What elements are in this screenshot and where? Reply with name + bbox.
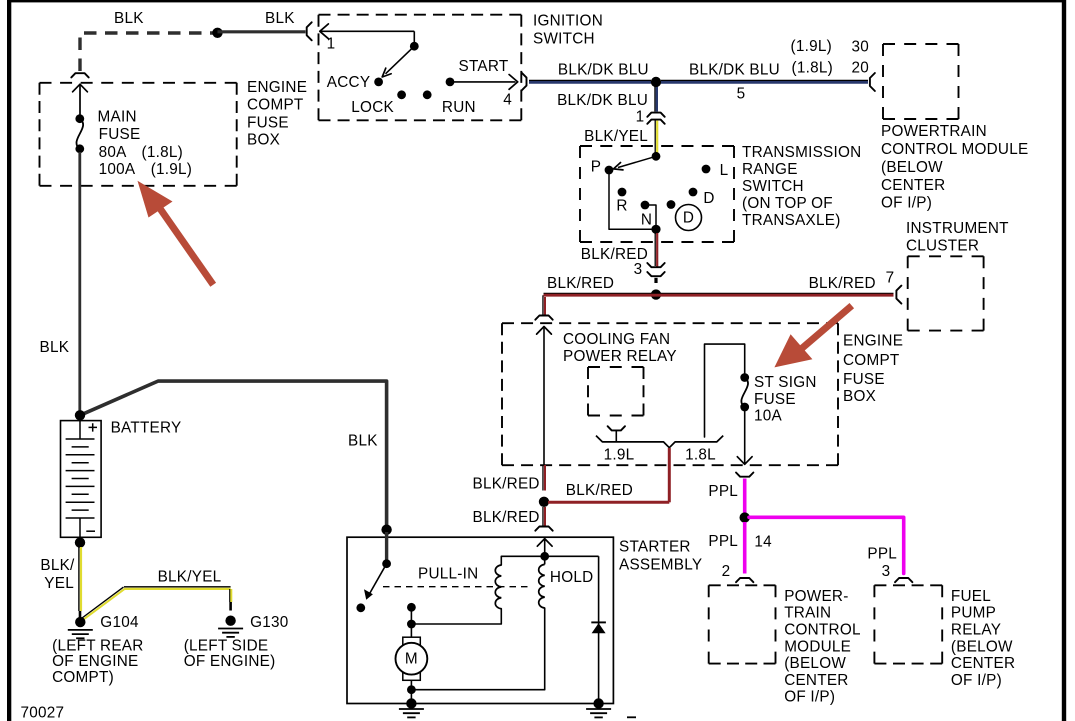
svg-text:CONTROL: CONTROL [784, 622, 861, 639]
svg-text:FUSE: FUSE [843, 371, 885, 388]
inline connector (two halves) below range switch [647, 263, 664, 283]
contact START with arrow to pin 4 [446, 58, 518, 90]
svg-text:100A: 100A [99, 161, 136, 178]
junction node pull-in return [407, 620, 416, 629]
label POWERTRAIN CONTROL MODULE (BELOW CENTER OF I/P) [881, 123, 1028, 212]
wire BLK/YEL branch to ground G130 [81, 587, 232, 621]
junction node hold/pull-in/diode [540, 552, 549, 561]
contact R [616, 188, 627, 215]
ignition switch box (dashed) [319, 15, 522, 121]
labels (1.9L) 30 / (1.8L) 20 pin variants [791, 38, 869, 77]
svg-text:CONTROL MODULE: CONTROL MODULE [881, 141, 1028, 158]
svg-text:CENTER: CENTER [951, 655, 1015, 672]
svg-text:IGNITION: IGNITION [533, 13, 603, 30]
mechanical link (dashed) [383, 586, 532, 588]
svg-text:L: L [720, 162, 729, 179]
svg-text:POWER-: POWER- [784, 588, 848, 605]
contact LOCK [351, 90, 406, 116]
battery negative node [75, 537, 85, 547]
engine selector bracket 1.9L / 1.8L [596, 436, 723, 448]
wire BLK/YEL from connector to transmission range switch [655, 120, 657, 156]
svg-text:30: 30 [851, 39, 869, 56]
svg-text:SWITCH: SWITCH [742, 178, 804, 195]
contact D [689, 188, 715, 207]
svg-text:RELAY: RELAY [951, 622, 1001, 639]
svg-text:1.8L: 1.8L [685, 447, 716, 464]
wire PPL from fuse to junction [743, 479, 747, 514]
node on ground rail below diode [593, 698, 603, 708]
wire BLK/RED from range switch down to connector [655, 233, 657, 267]
battery positive node [75, 410, 85, 420]
svg-text:BLK/RED: BLK/RED [566, 482, 633, 499]
junction node BLK/DK BLU [651, 77, 661, 87]
svg-text:BLK/RED: BLK/RED [473, 509, 540, 526]
label FUEL PUMP RELAY (BELOW CENTER OF I/P) [951, 588, 1015, 689]
svg-text:(LEFT SIDE: (LEFT SIDE [184, 638, 269, 655]
svg-text:FUEL: FUEL [951, 588, 991, 605]
instrument cluster box (dashed) [908, 256, 984, 330]
powertrain control module box (dashed, top right) [883, 44, 959, 119]
junction node PPL [740, 512, 750, 522]
svg-text:(ON TOP OF: (ON TOP OF [742, 195, 833, 212]
diode D1 [591, 622, 606, 633]
svg-text:BLK/RED: BLK/RED [473, 475, 540, 492]
wire BLK solid from junction to ignition switch pin 1 [218, 30, 306, 33]
ignition switch pin 1 arrow and feed line [320, 24, 415, 44]
svg-text:TRANSMISSION: TRANSMISSION [742, 144, 861, 161]
node on ground rail below motor [406, 698, 416, 708]
svg-text:INSTRUMENT: INSTRUMENT [906, 220, 1009, 237]
svg-text:BLK/RED: BLK/RED [809, 275, 876, 292]
connector half at starter assembly [535, 527, 552, 531]
label MAIN FUSE 80A (1.8L) 100A (1.9L) [98, 108, 193, 178]
svg-text:CLUSTER: CLUSTER [906, 238, 979, 255]
svg-text:BOX: BOX [843, 388, 876, 405]
connector half at powertrain control module pin 2 [736, 578, 753, 582]
label STARTER ASSEMBLY [619, 539, 702, 574]
wire pull-in coil top to hold junction [501, 556, 544, 565]
svg-text:COMPT): COMPT) [52, 669, 114, 686]
engine compartment fuse box (dashed outline, center) [502, 323, 838, 465]
svg-text:(1.9L): (1.9L) [791, 38, 832, 55]
svg-text:BATTERY: BATTERY [111, 419, 182, 436]
svg-text:4: 4 [503, 91, 512, 108]
wire BLK/RED from junction down to starter assembly [543, 507, 545, 526]
svg-text:FUSE: FUSE [247, 114, 289, 131]
contact N with wire to output node [641, 201, 656, 230]
pull-in coil [495, 565, 501, 609]
ground G130 [218, 616, 243, 637]
svg-text:5: 5 [737, 86, 746, 103]
svg-text:POWERTRAIN: POWERTRAIN [881, 123, 987, 140]
annotation arrow to MAIN FUSE [138, 181, 214, 285]
svg-text:BLK/DK BLU: BLK/DK BLU [689, 61, 780, 78]
node BLK wire at starter box [381, 525, 391, 535]
transmission range switch box (dashed) [580, 146, 734, 242]
contact P [591, 159, 614, 176]
switch wiper arm to ACCY [382, 46, 414, 77]
svg-text:RANGE: RANGE [742, 161, 798, 178]
wiper arm with arrow to P contact [614, 156, 657, 170]
svg-text:PULL-IN: PULL-IN [418, 566, 478, 583]
svg-text:(1.8L): (1.8L) [792, 60, 833, 77]
label COOLING FAN POWER RELAY [563, 331, 677, 365]
fuse: MAIN FUSE 80A/100A [75, 114, 84, 153]
hold coil [539, 556, 545, 608]
main fuse box connector (wire end into fuse box) [71, 73, 88, 77]
arrow + wire through fuse box to bottom [537, 327, 552, 466]
svg-text:80A: 80A [99, 144, 128, 161]
svg-text:FUSE: FUSE [99, 126, 141, 143]
arrow into fuse box (wire entry) [73, 84, 88, 115]
wire BLK/RED bus to instrument cluster [544, 293, 894, 295]
svg-text:(LEFT REAR: (LEFT REAR [52, 638, 143, 655]
svg-text:BLK: BLK [40, 339, 70, 356]
connector half at instrument cluster [896, 286, 901, 304]
label TRANSMISSION RANGE SWITCH (ON TOP OF TRANSAXLE) [742, 144, 861, 229]
wire entry arrow into starter [537, 539, 552, 557]
svg-text:(BELOW: (BELOW [784, 655, 846, 672]
svg-text:COOLING FAN: COOLING FAN [563, 331, 670, 348]
svg-text:OF ENGINE: OF ENGINE [52, 653, 138, 670]
svg-text:SWITCH: SWITCH [533, 31, 595, 48]
svg-text:CENTER: CENTER [784, 672, 848, 689]
svg-text:YEL: YEL [44, 575, 74, 592]
junction node: dashed BLK / solid BLK to ignition switch [212, 28, 222, 38]
wire BLK/RED bus drop into fuse box [543, 295, 545, 315]
svg-text:14: 14 [754, 534, 772, 551]
svg-text:OF I/P): OF I/P) [951, 672, 1002, 689]
svg-text:OF ENGINE): OF ENGINE) [184, 653, 276, 670]
svg-text:1.9L: 1.9L [604, 447, 635, 464]
svg-text:BLK/YEL: BLK/YEL [158, 569, 222, 586]
label POWER-TRAIN CONTROL MODULE (BELOW CENTER OF I/P) [784, 588, 861, 706]
svg-text:ST SIGN: ST SIGN [754, 374, 817, 391]
svg-text:M: M [405, 651, 418, 668]
output node of range switch [651, 225, 660, 234]
stray ground mark bottom right [627, 716, 636, 718]
svg-text:BLK/RED: BLK/RED [547, 275, 614, 292]
svg-text:PPL: PPL [708, 533, 738, 550]
wire pull-in coil bottom to motor node [411, 609, 501, 624]
label ENGINE COMPT FUSE BOX (right side) [843, 333, 903, 406]
svg-text:R: R [616, 198, 627, 215]
svg-text:MAIN: MAIN [98, 108, 137, 125]
connector half at ignition switch pin 4 [522, 73, 527, 91]
wire BLK/RED from bracket 1.8L down to junction [668, 448, 671, 502]
svg-text:BLK: BLK [265, 10, 295, 27]
wire from P contact to output node [609, 170, 656, 229]
svg-text:G130: G130 [250, 614, 288, 631]
contact L [702, 162, 729, 179]
svg-text:PUMP: PUMP [951, 605, 996, 622]
wire motor bottom to rail [410, 680, 412, 703]
svg-text:20: 20 [851, 60, 869, 77]
wire BLK/DK BLU down from junction to inline connector [655, 87, 657, 112]
solenoid switch arm [356, 559, 391, 612]
svg-text:BLK/: BLK/ [40, 557, 75, 574]
connector half into engine compt fuse box [535, 316, 552, 320]
label INSTRUMENT CLUSTER [906, 220, 1009, 255]
circled D indicator [676, 205, 702, 231]
label (LEFT REAR OF ENGINE COMPT) [52, 638, 143, 686]
switch wiper pivot [410, 42, 419, 51]
ground G104 [68, 617, 93, 638]
wire BLK into solenoid switch [385, 532, 388, 564]
svg-text:START: START [459, 58, 509, 75]
engine compartment fuse box (dashed outline, top left) [40, 83, 237, 186]
svg-text:BLK/YEL: BLK/YEL [584, 128, 648, 145]
svg-text:BOX: BOX [247, 132, 280, 149]
svg-text:COMPT: COMPT [843, 352, 900, 369]
solenoid contact node [407, 603, 416, 612]
svg-text:1: 1 [327, 36, 336, 53]
battery B1 [61, 421, 102, 538]
svg-text:PPL: PPL [867, 545, 897, 562]
powertrain control module box (dashed, bottom) [709, 585, 776, 663]
svg-text:D: D [683, 210, 694, 227]
label (LEFT SIDE OF ENGINE) [184, 638, 276, 671]
svg-text:TRAIN: TRAIN [784, 605, 831, 622]
wire BLK/YEL battery negative to ground G104 [79, 547, 81, 618]
contact ACCY [327, 74, 383, 91]
junction node motor negative [407, 685, 416, 694]
svg-text:OF I/P): OF I/P) [881, 195, 932, 212]
label ENGINE COMPT FUSE BOX [247, 79, 307, 149]
wire hold coil bottom to ground rail [411, 608, 544, 690]
svg-text:(1.8L): (1.8L) [142, 144, 183, 161]
motor M1 [396, 637, 428, 680]
annotation arrow to ST SIGN FUSE [774, 306, 851, 368]
svg-text:(BELOW: (BELOW [951, 638, 1013, 655]
svg-text:70027: 70027 [21, 705, 65, 721]
svg-text:ENGINE: ENGINE [247, 79, 307, 96]
svg-text:3: 3 [882, 563, 891, 580]
svg-text:P: P [591, 159, 601, 176]
svg-text:MODULE: MODULE [784, 638, 851, 655]
svg-text:7: 7 [886, 270, 895, 287]
svg-text:BLK: BLK [348, 433, 378, 450]
wire BLK/RED from junction to 1.8L drop [548, 501, 669, 504]
contact RUN [423, 90, 476, 116]
connector half below relay with stub to selector bracket [608, 426, 625, 442]
wire BLK from main fuse down to battery [78, 152, 81, 414]
svg-text:10A: 10A [754, 407, 783, 424]
connector half at powertrain control module [870, 73, 875, 91]
svg-text:1: 1 [636, 109, 645, 126]
svg-text:STARTER: STARTER [619, 539, 691, 556]
junction node BLK/RED at starter feed [539, 497, 549, 507]
junction node on BLK/RED bus [651, 289, 661, 299]
svg-text:PPL: PPL [708, 483, 738, 500]
svg-text:BLK/DK BLU: BLK/DK BLU [557, 92, 648, 109]
svg-text:BLK/DK BLU: BLK/DK BLU [558, 62, 649, 79]
wire BLK/DK BLU from junction to powertrain control module [661, 80, 868, 82]
svg-text:ACCY: ACCY [327, 74, 371, 91]
svg-text:FUSE: FUSE [754, 391, 796, 408]
svg-text:OF I/P): OF I/P) [784, 689, 835, 706]
unlabeled contact near circled D [667, 200, 676, 209]
ground below starter (diode side) [586, 709, 611, 717]
wire from fuse down with exit arrow [737, 411, 752, 464]
wire from bracket up and over to ST SIGN fuse [705, 344, 745, 437]
wire BLK (dashed) from main fuse box up and right to junction [80, 33, 217, 71]
svg-text:(BELOW: (BELOW [881, 159, 943, 176]
wire BLK battery positive to starter assembly [80, 381, 387, 529]
svg-text:N: N [641, 212, 652, 229]
wire BLK/DK BLU from ignition switch to junction [529, 80, 651, 82]
svg-text:ASSEMBLY: ASSEMBLY [619, 557, 702, 574]
fuse ST SIGN FUSE 10A [740, 373, 749, 411]
wire PPL junction to fuel pump relay [749, 517, 904, 573]
svg-text:G104: G104 [100, 614, 139, 631]
svg-text:TRANSAXLE): TRANSAXLE) [742, 212, 841, 229]
label BLK/ YEL [40, 557, 75, 592]
label ST SIGN FUSE 10A [754, 374, 817, 424]
inline connector C (two halves) [647, 113, 664, 124]
cooling fan power relay box (dashed) [588, 367, 644, 416]
connector half at fuel pump relay pin 3 [895, 578, 912, 582]
svg-text:RUN: RUN [442, 99, 476, 116]
svg-text:ENGINE: ENGINE [843, 333, 903, 350]
connector half below fuse box (PPL exit) [736, 473, 753, 477]
wire contact to motor [410, 607, 412, 637]
starter assembly box [347, 537, 613, 703]
svg-text:(1.9L): (1.9L) [151, 161, 192, 178]
svg-text:D: D [703, 190, 714, 207]
range switch wiper node [652, 152, 661, 161]
svg-text:HOLD: HOLD [550, 569, 594, 586]
wire diode branch [598, 556, 600, 703]
svg-text:3: 3 [634, 261, 643, 278]
fuel pump relay box (dashed) [874, 585, 942, 663]
wire BLK/RED below fuse box left drop [543, 465, 545, 491]
svg-text:BLK: BLK [114, 10, 144, 27]
wire PPL junction down to powertrain control module [743, 522, 747, 574]
svg-text:LOCK: LOCK [351, 99, 394, 116]
connector half at ignition switch pin 1 [307, 22, 312, 40]
svg-text:POWER RELAY: POWER RELAY [563, 348, 677, 365]
label IGNITION SWITCH [533, 13, 603, 48]
svg-text:COMPT: COMPT [247, 97, 304, 114]
svg-text:2: 2 [722, 563, 731, 580]
wire junction to diode branch [545, 555, 599, 557]
svg-text:CENTER: CENTER [881, 177, 945, 194]
ground below starter (motor side) [399, 709, 424, 717]
